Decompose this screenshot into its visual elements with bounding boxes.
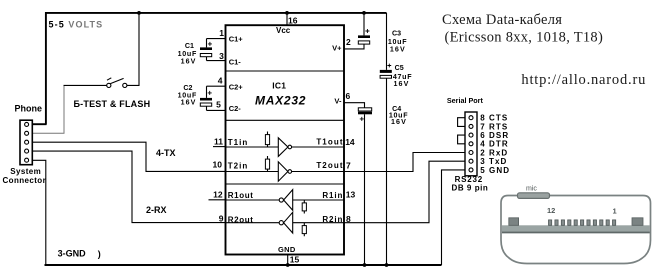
svg-text:C1: C1 bbox=[185, 42, 194, 50]
svg-text:C2+: C2+ bbox=[229, 82, 244, 91]
svg-text:C2-: C2- bbox=[229, 104, 242, 113]
svg-text:RTS: RTS bbox=[489, 122, 508, 131]
svg-text:V+: V+ bbox=[332, 43, 342, 52]
svg-text:Б-TEST & FLASH: Б-TEST & FLASH bbox=[74, 99, 151, 109]
svg-text:GND: GND bbox=[278, 245, 296, 254]
svg-text:RS232: RS232 bbox=[455, 175, 483, 184]
svg-text:1: 1 bbox=[613, 206, 617, 215]
svg-text:7: 7 bbox=[480, 122, 485, 131]
svg-text:GND: GND bbox=[489, 166, 510, 175]
svg-text:5: 5 bbox=[216, 99, 221, 109]
svg-text:T2out: T2out bbox=[316, 161, 343, 170]
svg-text:2: 2 bbox=[346, 37, 351, 47]
svg-text:Vcc: Vcc bbox=[276, 26, 291, 35]
svg-text:4-TX: 4-TX bbox=[156, 148, 176, 158]
svg-text:2: 2 bbox=[480, 148, 485, 157]
svg-text:DTR: DTR bbox=[489, 140, 509, 149]
svg-text:6: 6 bbox=[480, 131, 485, 140]
svg-text:R2out: R2out bbox=[228, 215, 254, 224]
svg-text:8: 8 bbox=[480, 114, 485, 123]
svg-text:System: System bbox=[10, 167, 41, 176]
svg-text:2-RX: 2-RX bbox=[146, 205, 167, 215]
svg-text:): ) bbox=[98, 249, 101, 259]
svg-text:16V: 16V bbox=[391, 118, 407, 126]
svg-text:Serial Port: Serial Port bbox=[447, 96, 484, 105]
svg-text:C1+: C1+ bbox=[229, 34, 244, 43]
svg-text:13: 13 bbox=[346, 190, 356, 200]
svg-text:7: 7 bbox=[346, 161, 351, 171]
svg-text:C5: C5 bbox=[395, 64, 404, 72]
svg-text:mic: mic bbox=[526, 186, 537, 193]
svg-text:CTS: CTS bbox=[489, 114, 508, 123]
svg-text:4: 4 bbox=[480, 140, 485, 149]
svg-text:R1out: R1out bbox=[228, 191, 254, 200]
svg-text:16: 16 bbox=[288, 16, 298, 26]
svg-text:15: 15 bbox=[290, 255, 300, 265]
svg-text:V-: V- bbox=[334, 97, 342, 106]
svg-text:9: 9 bbox=[219, 214, 224, 224]
svg-text:12: 12 bbox=[213, 189, 223, 199]
svg-text:3-GND: 3-GND bbox=[58, 249, 87, 259]
svg-text:16V: 16V bbox=[390, 46, 406, 54]
svg-text:MAX232: MAX232 bbox=[255, 93, 306, 107]
svg-text:6: 6 bbox=[346, 91, 351, 101]
svg-text:DB 9 pin: DB 9 pin bbox=[452, 184, 489, 193]
svg-text:3: 3 bbox=[480, 157, 485, 166]
svg-text:16V: 16V bbox=[394, 80, 410, 88]
svg-text:16V: 16V bbox=[181, 99, 197, 107]
svg-text:16V: 16V bbox=[181, 57, 197, 65]
svg-text:5-5 VOLTS: 5-5 VOLTS bbox=[49, 19, 104, 29]
svg-text:RxD: RxD bbox=[489, 148, 508, 157]
svg-text:IC1: IC1 bbox=[272, 81, 286, 91]
svg-text:8: 8 bbox=[346, 214, 351, 224]
svg-text:C1-: C1- bbox=[229, 57, 242, 66]
svg-text:4: 4 bbox=[218, 76, 223, 86]
svg-text:R1in: R1in bbox=[322, 191, 343, 200]
svg-text:T1in: T1in bbox=[228, 138, 248, 147]
svg-text:14: 14 bbox=[345, 137, 355, 147]
svg-text:DSR: DSR bbox=[489, 131, 509, 140]
svg-text:Connector: Connector bbox=[3, 176, 47, 185]
svg-text:3: 3 bbox=[219, 51, 224, 61]
svg-text:TxD: TxD bbox=[489, 157, 507, 166]
svg-text:http://allo.narod.ru: http://allo.narod.ru bbox=[521, 72, 646, 88]
svg-text:12: 12 bbox=[547, 206, 555, 215]
svg-text:Phone: Phone bbox=[15, 103, 43, 113]
svg-text:5: 5 bbox=[480, 166, 485, 175]
svg-text:T2in: T2in bbox=[228, 161, 248, 170]
svg-text:(Ericsson 8xx, 1018, T18): (Ericsson 8xx, 1018, T18) bbox=[445, 29, 604, 45]
svg-text:1: 1 bbox=[219, 28, 224, 38]
svg-text:Схема Data-кабеля: Схема Data-кабеля bbox=[442, 12, 562, 28]
svg-text:10: 10 bbox=[213, 159, 223, 169]
svg-text:R2in: R2in bbox=[322, 215, 343, 224]
svg-text:C3: C3 bbox=[392, 29, 401, 37]
svg-text:11: 11 bbox=[214, 136, 223, 146]
svg-text:T1out: T1out bbox=[316, 138, 343, 147]
